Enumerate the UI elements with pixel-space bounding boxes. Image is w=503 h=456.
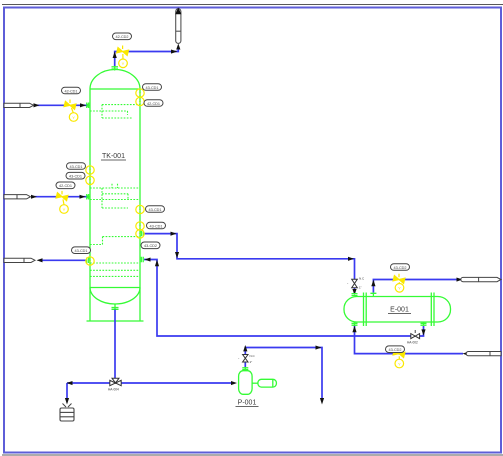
- arrow right feed1 at column: [80, 103, 86, 107]
- instrument bubble feed 2: [60, 205, 69, 214]
- svg-text:HA-002: HA-002: [407, 341, 418, 345]
- arrow right bottoms into pump: [231, 381, 237, 385]
- arrow down pump discharge end: [320, 398, 324, 405]
- arrow down into E-001 top inlet: [352, 289, 356, 295]
- control valve right inlet: [393, 350, 405, 358]
- arrow down at x177 elbow: [175, 252, 179, 258]
- tag col right top 2: [144, 100, 163, 107]
- wire feed 1 line: [37, 104, 87, 106]
- wire bottoms draw line to left flag: [40, 259, 87, 261]
- svg-text:E-001: E-001: [390, 307, 409, 314]
- tag col left mid 2: [66, 172, 85, 179]
- wire column bottoms down: [114, 310, 116, 380]
- column internals dashed section 1: [90, 105, 140, 118]
- svg-text:N.C: N.C: [359, 277, 365, 281]
- svg-text:1": 1": [359, 286, 362, 290]
- exchanger nozzle bottom-left stub: [352, 322, 358, 326]
- column TK-001 shell: [90, 70, 140, 288]
- arrow up into E-001 bottom inlet: [352, 326, 356, 332]
- column top nozzle N1: [112, 66, 119, 71]
- wire bottoms header: [67, 382, 232, 384]
- exchanger tube sheet right: [431, 293, 434, 327]
- tag col right top 1: [143, 84, 162, 91]
- svg-text:Y: Y: [139, 232, 142, 237]
- wire drain drop: [66, 383, 68, 399]
- arrow right long line y258: [348, 257, 354, 261]
- svg-text:Y: Y: [72, 115, 75, 120]
- instrument bubble col right top 1: [136, 89, 144, 97]
- arrow left right-flag inlet: [463, 352, 469, 356]
- instrument bubble col left mid 2: [86, 176, 94, 184]
- tag col left mid 1: [67, 163, 86, 170]
- tag col right mid 1: [146, 206, 165, 213]
- arrow right feed2 at column: [80, 195, 86, 199]
- arrow right pump discharge elbow: [316, 346, 322, 350]
- wire column side draw to E-001 top: [145, 234, 355, 294]
- nozzle feed 2 flange: [87, 194, 89, 200]
- flag feed 2 (left): [4, 195, 31, 199]
- tag feed 1: [62, 87, 81, 94]
- arrow down E-001 bottom outlet: [421, 329, 425, 335]
- valve check at pump discharge: [243, 355, 248, 363]
- arrow left bottoms to drain: [67, 381, 73, 385]
- nozzle right y233 flange: [141, 231, 143, 237]
- arrow right feed1 after flag: [34, 103, 40, 107]
- flag bottoms draw (left): [4, 258, 35, 262]
- nozzle right y259 flange: [141, 257, 143, 263]
- svg-text:Y: Y: [139, 91, 142, 96]
- flag E-001 feed (right): [466, 352, 501, 356]
- instrument bubble col left mid 1: [86, 166, 94, 174]
- tag col right mid 3: [141, 242, 160, 249]
- vent stack top arrow: [175, 8, 181, 15]
- nozzle feed 2 inlet triangle: [86, 194, 90, 199]
- exchanger tube sheet left: [364, 293, 367, 327]
- valve HA-004 three-way at bottoms junction: [110, 378, 121, 386]
- column top tangent line: [90, 88, 140, 90]
- svg-text:42-CD1: 42-CD1: [64, 89, 77, 93]
- wire pump discharge: [245, 348, 322, 400]
- valve vertical at E-001 top inlet: [352, 279, 358, 287]
- pump top nozzle flange: [242, 367, 248, 371]
- arrow up into vent stack: [176, 44, 180, 50]
- exchanger E-001 shell: [344, 297, 451, 323]
- svg-text:42-CD2: 42-CD2: [115, 35, 128, 39]
- arrow right overhead before stack riser: [171, 50, 178, 54]
- control valve feed 2: [56, 193, 68, 201]
- column bottom nozzle N2: [112, 304, 119, 310]
- wire E-001 bottom return to column: [144, 260, 424, 337]
- svg-text:Y: Y: [139, 99, 142, 104]
- drain drum: [60, 408, 74, 421]
- arrow right into right flag y279: [457, 278, 463, 282]
- svg-text:43-CD1: 43-CD1: [145, 86, 158, 90]
- control valve E-001 outlet: [393, 276, 405, 284]
- exchanger nozzle top-right stub: [370, 293, 376, 297]
- tag overhead line: [113, 33, 132, 40]
- instrument bubble col right mid 2: [136, 222, 144, 230]
- instrument bubble col right mid 3: [136, 230, 144, 238]
- tag feed 2: [56, 182, 75, 189]
- tag col right mid 2: [147, 222, 166, 229]
- svg-text:Y: Y: [122, 61, 125, 66]
- svg-text:P-001: P-001: [238, 400, 257, 407]
- svg-text:Y: Y: [63, 207, 66, 212]
- svg-text:HA-004: HA-004: [108, 388, 119, 392]
- instrument bubble E-001 outlet: [395, 284, 404, 293]
- exchanger nozzle top-left flange: [352, 294, 358, 296]
- tag bottoms draw: [72, 247, 91, 254]
- nozzle bottoms-left flange: [87, 258, 89, 264]
- pump motor: [258, 379, 277, 387]
- column bottom dished head: [90, 288, 140, 305]
- svg-text:Y: Y: [139, 224, 142, 229]
- arrow down into drain funnel: [65, 398, 69, 405]
- instrument bubble overhead: [119, 59, 128, 68]
- svg-text:42-CD1: 42-CD1: [147, 102, 160, 106]
- arrow up pump discharge: [243, 345, 247, 351]
- svg-text:43-CD1: 43-CD1: [69, 175, 82, 179]
- arrow right feed2 after flag: [31, 195, 37, 199]
- svg-text:Y: Y: [398, 361, 401, 366]
- wire feed 2 line: [34, 196, 87, 198]
- arrow left return into column: [145, 258, 151, 262]
- tag E-001 feed: [386, 346, 405, 353]
- nozzle feed 1 inlet triangle: [86, 103, 90, 108]
- svg-text:43-CD2: 43-CD2: [393, 266, 406, 270]
- svg-text:43-CD1: 43-CD1: [69, 165, 82, 169]
- instrument bubble col right mid 1: [136, 205, 144, 213]
- arrow up E-001 outlet riser: [371, 280, 375, 286]
- column bottom tangent line: [90, 287, 140, 289]
- control valve feed 1: [64, 101, 76, 109]
- svg-text:43-CD2: 43-CD2: [388, 348, 401, 352]
- pump coupling line: [252, 382, 258, 384]
- arrow up return riser x157: [155, 260, 159, 266]
- svg-text:43-CD1: 43-CD1: [74, 249, 87, 253]
- control valve overhead: [117, 48, 129, 56]
- svg-text:Y: Y: [89, 168, 92, 173]
- wire overhead vapor line: [115, 48, 179, 67]
- instrument bubble right inlet: [395, 359, 404, 368]
- svg-text:43-CD1: 43-CD1: [148, 208, 161, 212]
- nozzle feed 1 flange: [87, 103, 89, 109]
- column skirt: [87, 288, 144, 322]
- svg-text:Y: Y: [398, 286, 401, 291]
- arrow right side draw y233: [171, 232, 177, 236]
- vent stack vessel: [176, 9, 181, 44]
- flag E-001 outlet (right): [461, 277, 501, 281]
- svg-text:Y: Y: [89, 178, 92, 183]
- drain funnel marks: [63, 404, 72, 408]
- column internals dashed bottom trays: [90, 263, 140, 276]
- wire E-001 top outlet to right flag: [373, 280, 462, 293]
- svg-text:1": 1": [250, 360, 253, 364]
- column internals dashed section 2: [90, 184, 140, 208]
- tag E-001 outlet: [391, 264, 410, 271]
- instrument bubble feed 1: [69, 113, 78, 122]
- svg-text:Y: Y: [139, 207, 142, 212]
- svg-text:Y: Y: [89, 259, 92, 264]
- svg-text:TK-001: TK-001: [102, 153, 125, 160]
- instrument bubble col left bottom: [86, 257, 94, 265]
- column internals dashed downcomer step: [90, 237, 140, 245]
- svg-text:43-CD1: 43-CD1: [149, 224, 162, 228]
- arrow left bottoms draw into flag: [37, 258, 43, 262]
- wire right flag inlet to E-001 bottom: [355, 326, 464, 354]
- exchanger nozzle bottom-right stub: [421, 322, 427, 326]
- svg-text:N.C: N.C: [250, 354, 256, 358]
- svg-text:42-CD1: 42-CD1: [59, 184, 72, 188]
- flag feed 1 (left): [4, 103, 34, 107]
- pump P-001 body: [239, 371, 253, 395]
- valve HA-002 on E-001 return: [411, 334, 420, 339]
- arrow up overhead at column top: [113, 52, 117, 59]
- instrument bubble col right top 2: [136, 97, 144, 105]
- svg-text:43-CD2: 43-CD2: [144, 244, 157, 248]
- wire pump suction stub: [244, 363, 246, 368]
